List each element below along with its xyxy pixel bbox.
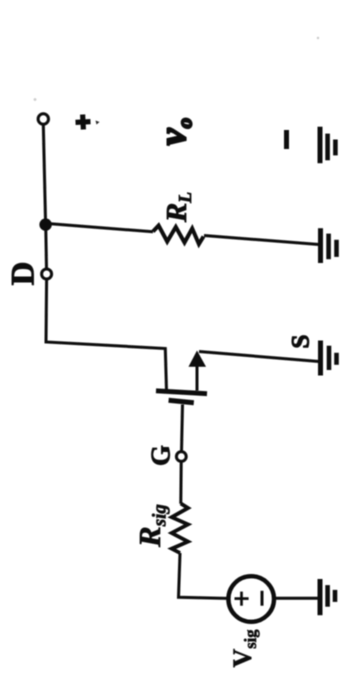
terminal (vo+) output open circle [38,114,48,124]
label S (source) [288,335,315,349]
wire junction to RL [49,224,153,232]
transistor Q1 MOSFET channel bar [156,391,207,394]
wire gate lead to G circle [182,405,183,452]
svg-text:vo: vo [152,118,197,145]
wire D circle down to corner and across to MOSFET drain [46,279,167,391]
node G open circle [176,452,186,462]
wire Vsig to ground [275,597,320,600]
resistor RL zigzag [153,226,204,245]
label Vsig [228,629,260,668]
ground (output reference, top right) [320,127,335,164]
speck left [34,98,37,101]
resistor Rsig zigzag [172,504,188,554]
label + (output polarity plus) [75,114,91,130]
wire RL to ground [204,236,319,245]
svg-text:D: D [6,262,42,286]
ground (RL) [321,228,337,263]
speck top [317,37,319,39]
svg-text:RL: RL [161,192,195,223]
wire junction to D circle [44,229,48,269]
node D open circle [42,269,52,279]
source Vsig circle [228,576,274,622]
svg-text:G: G [146,445,176,466]
transistor Q1 source lead with arrowhead [196,366,199,391]
source Vsig minus sign [261,591,264,606]
svg-text:S: S [288,335,315,349]
label D (drain) [6,262,42,286]
wire output terminal to drain junction [43,124,45,220]
label Rsig [132,504,171,548]
speck near plus [96,121,100,125]
ground (source) [321,341,337,376]
transistor Q1 gate bar [169,400,194,403]
label vo (output voltage) [152,118,197,145]
svg-text:Rsig: Rsig [132,504,171,548]
node junction dot (drain node) [39,218,51,230]
label G (gate) [146,445,176,466]
ground (Vsig) [320,579,335,615]
label RL [161,192,195,223]
wire Rsig to corner and across to Vsig [179,553,227,598]
label - (output polarity minus) [284,130,289,149]
wire G circle to Rsig [179,461,182,503]
svg-text:Vsig: Vsig [228,629,260,668]
wire source arrow to S ground [199,352,319,362]
source Vsig plus sign [235,592,249,606]
